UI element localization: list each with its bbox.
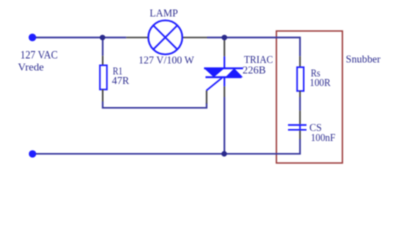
svg-text:100nF: 100nF: [311, 133, 336, 144]
svg-text:226B: 226B: [243, 65, 267, 76]
svg-text:127 VAC: 127 VAC: [20, 50, 58, 62]
svg-text:Snubber: Snubber: [346, 54, 381, 65]
svg-text:47R: 47R: [112, 76, 130, 87]
svg-text:LAMP: LAMP: [150, 8, 179, 19]
svg-text:Vrede: Vrede: [18, 62, 45, 73]
svg-text:100R: 100R: [310, 78, 331, 89]
svg-text:TRIAC: TRIAC: [244, 55, 273, 66]
svg-text:127 V/100 W: 127 V/100 W: [139, 56, 195, 67]
